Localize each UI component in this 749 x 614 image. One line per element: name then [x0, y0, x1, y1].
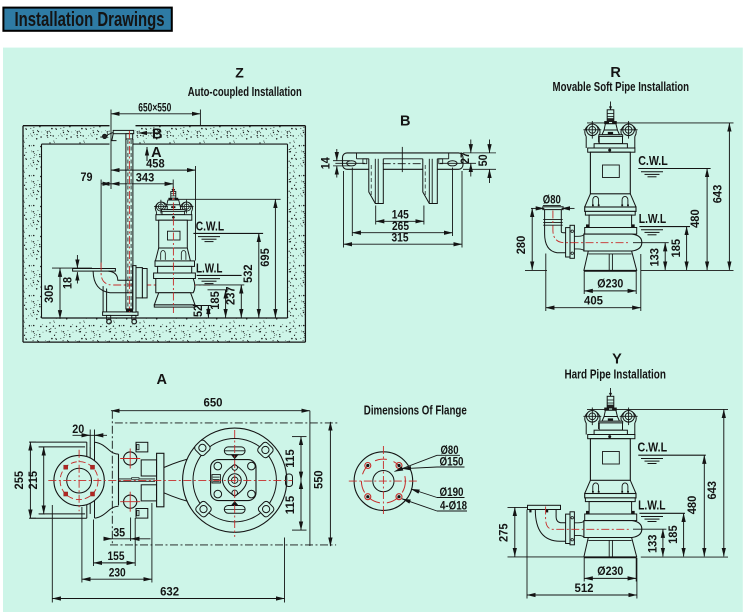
pump R flange plates — [585, 207, 636, 211]
bracket center line — [401, 147, 403, 172]
volute centerline red vertical — [234, 430, 236, 537]
discharge flange disc — [54, 455, 104, 505]
pump Y taper — [585, 480, 591, 493]
pump Z volute — [156, 279, 195, 293]
pump Y cable needle — [610, 388, 612, 396]
pump R shoulder — [588, 148, 635, 152]
svg-text:L.W.L: L.W.L — [196, 260, 223, 275]
svg-text:18: 18 — [61, 277, 75, 289]
svg-text:L.W.L: L.W.L — [638, 498, 665, 513]
svg-text:14: 14 — [319, 157, 333, 169]
pump Y cable plug — [607, 396, 614, 408]
svg-text:155: 155 — [108, 549, 125, 563]
svg-text:B: B — [400, 114, 410, 130]
dimension 650 extension right — [309, 411, 311, 546]
dimension 115 upper — [292, 436, 307, 438]
pit inner wall outline — [42, 143, 110, 145]
dimension 237 — [196, 284, 244, 286]
svg-text:79: 79 — [81, 170, 93, 184]
dimension 650 — [111, 410, 310, 412]
pump Z base plate — [154, 305, 195, 307]
dimension 50 — [463, 168, 496, 170]
svg-text:643: 643 — [711, 185, 725, 204]
dimension 145 — [375, 206, 377, 225]
pump Z shoulder — [156, 215, 192, 221]
elbow centerline red — [101, 263, 210, 286]
pump Y head plate — [599, 421, 623, 423]
pump Y suction bell — [584, 538, 637, 557]
pump R nameplate — [603, 165, 620, 178]
dimension 643 Y — [723, 410, 725, 557]
dimension 35 — [130, 518, 132, 542]
svg-text:Ø150: Ø150 — [440, 455, 464, 469]
dimension 215 — [39, 446, 46, 448]
volute square cover — [211, 460, 256, 501]
pump Y base line — [584, 556, 637, 558]
pump Z cable plug — [171, 192, 176, 199]
dimension 315 — [343, 171, 345, 248]
pump R volute — [584, 234, 642, 251]
pump R head flare — [594, 144, 627, 148]
flange plate side lines — [30, 441, 87, 443]
pit wall speckle bottom — [23, 318, 305, 342]
svg-text:27: 27 — [458, 152, 472, 164]
pump Z lifting eye left — [155, 202, 167, 211]
svg-text:35: 35 — [113, 525, 125, 539]
neck curve top — [164, 457, 197, 468]
dimension 52 — [193, 305, 212, 307]
elbow Y centerline red — [546, 507, 631, 530]
dimension 27 — [463, 152, 496, 154]
pit outline centerline bottom — [110, 544, 336, 546]
dimension 695 — [274, 199, 276, 317]
volute oval slot top — [224, 447, 245, 455]
pit outline centerline left — [111, 411, 113, 546]
pump R mid section — [589, 215, 632, 227]
dimension 305 — [59, 268, 61, 319]
svg-text:Ø80: Ø80 — [543, 192, 561, 206]
pump Y lifting eye left — [585, 411, 600, 423]
coupling bolt top — [124, 452, 137, 465]
pump Z upper flange — [155, 261, 195, 267]
svg-text:230: 230 — [109, 565, 126, 579]
dimension 405 — [545, 254, 547, 312]
discharge plate reference line — [52, 267, 92, 269]
pump Y motor body — [590, 439, 630, 481]
elbow R centerline red — [553, 211, 631, 243]
pump R motor body — [590, 152, 630, 194]
svg-text:L.W.L: L.W.L — [639, 211, 666, 226]
pump Y lifting eye right — [621, 411, 636, 423]
svg-text:255: 255 — [12, 471, 26, 490]
flange bolt circle red — [361, 459, 405, 503]
volute oval slot bottom — [224, 506, 245, 514]
base extension line Y — [641, 556, 728, 558]
pump R lower plate — [585, 228, 637, 235]
svg-text:458: 458 — [146, 156, 165, 170]
dimension 265 — [351, 168, 353, 237]
pump Z motor body — [159, 220, 188, 248]
disc bolt circle red — [60, 462, 98, 500]
svg-text:Hard Pipe Installation: Hard Pipe Installation — [564, 367, 666, 382]
dimension 643 R — [728, 123, 730, 270]
pit wall speckle top-right — [136, 126, 306, 144]
handle reference line R — [587, 122, 734, 124]
dimension 280 — [525, 270, 547, 272]
guide pipe centerline — [128, 131, 130, 312]
dimension 14 — [333, 160, 350, 162]
view arrow B — [139, 132, 153, 134]
dimension 115 lower — [292, 529, 307, 531]
pump Y cap plate — [605, 408, 617, 410]
dimension 343 — [172, 180, 174, 190]
volute outer circle — [183, 428, 287, 532]
pump Z cap plate — [169, 198, 178, 200]
dimension 185 Z — [208, 289, 229, 291]
svg-text:Ø190: Ø190 — [440, 485, 464, 499]
volute right tab — [286, 474, 293, 487]
elbow R vertical pipe — [543, 207, 563, 210]
dimension 255 — [29, 441, 36, 443]
svg-text:532: 532 — [241, 264, 255, 283]
pump top reference line — [177, 198, 281, 200]
pump Z cable needle — [172, 187, 174, 192]
bracket plate — [343, 153, 464, 169]
dimension 185 Y — [683, 513, 685, 556]
svg-text:480: 480 — [685, 496, 699, 515]
elbow outer curve — [93, 271, 134, 293]
coupling flange plates — [133, 266, 136, 313]
dimension 230 — [81, 507, 83, 583]
pump Z cap trapezoid — [167, 200, 180, 205]
svg-text:405: 405 — [584, 294, 603, 308]
svg-text:C.W.L: C.W.L — [638, 153, 668, 168]
coupling slot lines — [119, 478, 156, 480]
dimension 480 Y — [703, 455, 705, 556]
pump R discharge flange plates — [566, 228, 570, 257]
stand legs — [102, 286, 104, 312]
svg-text:B: B — [152, 127, 162, 143]
bracket notch right — [439, 159, 443, 164]
pump Y ribs — [593, 483, 599, 492]
dimension 133 R — [633, 242, 669, 244]
view arrow A — [146, 147, 148, 161]
pump R lifting eye right — [621, 125, 636, 137]
stand base plate — [103, 312, 138, 316]
guide pipe bottom holder — [126, 308, 132, 312]
svg-text:695: 695 — [258, 248, 272, 267]
pump Y discharge flange plates — [566, 514, 570, 543]
bracket S-curve bottom — [95, 506, 119, 518]
volute lens — [223, 465, 247, 497]
pump Z suction bell — [154, 293, 195, 305]
flange bolt holes — [396, 463, 402, 469]
svg-text:632: 632 — [160, 584, 179, 598]
svg-text:280: 280 — [514, 236, 528, 255]
svg-text:52: 52 — [191, 305, 205, 317]
pump R base line — [584, 270, 637, 272]
bracket bolt hole left — [347, 161, 356, 166]
pump R head plate — [599, 135, 623, 137]
dimension 18 — [76, 255, 78, 268]
svg-text:133: 133 — [648, 248, 662, 267]
guide claw left — [369, 159, 384, 204]
svg-text:512: 512 — [575, 581, 594, 595]
svg-text:20: 20 — [72, 422, 84, 436]
pump R lifting eye left — [585, 125, 600, 137]
svg-text:50: 50 — [476, 154, 490, 166]
flange bore circle — [373, 471, 394, 492]
pump R cable needle — [610, 102, 612, 110]
disc centerline red vertical — [78, 450, 80, 512]
svg-text:185: 185 — [666, 525, 680, 544]
elbow inner curve — [108, 271, 133, 280]
pit outer wall outline — [23, 125, 110, 127]
dimension 275 — [508, 506, 528, 508]
svg-text:133: 133 — [645, 534, 659, 553]
neck curve bottom — [164, 493, 197, 504]
pump Y lower plate — [585, 514, 637, 521]
svg-text:Dimensions Of Flange: Dimensions Of Flange — [364, 403, 467, 418]
coupling blocks — [141, 460, 156, 476]
pump Z taper — [155, 248, 158, 261]
coupling mounting plate — [157, 453, 164, 507]
elbow R bend — [545, 234, 566, 253]
dimension 550 — [329, 422, 331, 546]
pump Z lifting eye right — [181, 202, 193, 211]
coupling bracket body — [118, 454, 120, 505]
volute key left — [212, 475, 220, 483]
svg-text:Auto-coupled Installation: Auto-coupled Installation — [188, 84, 302, 99]
dimension 512 — [526, 510, 528, 599]
flange outer circle — [354, 452, 413, 511]
base extension line R — [641, 270, 734, 272]
pit wall speckle right — [288, 144, 306, 318]
guide pipe — [125, 139, 127, 310]
disc bolts red — [64, 465, 68, 469]
flange centerline red vertical — [382, 446, 384, 516]
pump Z head plates — [162, 210, 186, 212]
svg-text:C.W.L: C.W.L — [638, 440, 668, 455]
dimension 650x550 — [111, 113, 200, 115]
pit outline centerline top — [115, 422, 339, 424]
svg-text:4-Ø18: 4-Ø18 — [440, 499, 467, 513]
bracket step lines — [356, 153, 358, 159]
svg-text:185: 185 — [208, 291, 222, 310]
pump R ribs — [593, 196, 599, 206]
elbow R coupling bands — [543, 219, 563, 221]
svg-text:A: A — [157, 372, 168, 388]
coupling upper hook — [136, 442, 148, 452]
pit floor line — [42, 317, 288, 319]
pump Y cap trapezoid — [604, 410, 617, 416]
bracket bolt hole right — [448, 161, 457, 166]
pump Y nameplate — [603, 452, 620, 465]
bracket S-curve top — [95, 442, 119, 454]
svg-text:315: 315 — [392, 231, 409, 245]
pump R suction bell — [584, 251, 637, 270]
guide claw right — [423, 159, 438, 204]
anchor feet — [107, 315, 111, 319]
pump Z nameplate — [168, 231, 181, 240]
svg-text:275: 275 — [496, 523, 510, 542]
pump R taper — [585, 194, 591, 207]
elbow Y bend — [535, 510, 565, 542]
svg-text:Installation Drawings: Installation Drawings — [15, 8, 165, 31]
dimension 20 — [89, 430, 91, 447]
anchor bolt in wall — [103, 134, 107, 138]
elbow Y top flange — [528, 505, 561, 509]
dimension 650x550 extension lines — [110, 110, 112, 190]
volute cover bolts — [214, 462, 222, 470]
flange centerline red horizontal — [349, 480, 418, 482]
discharge flange plate — [73, 269, 116, 272]
pit wall speckle left — [23, 144, 42, 318]
pump Y mid section — [589, 502, 632, 514]
pump Z ribs — [161, 250, 166, 259]
pump Z centerline red — [172, 188, 174, 314]
svg-text:115: 115 — [283, 496, 297, 515]
dimension 480 R — [706, 169, 708, 270]
pump R cable plug — [607, 110, 614, 122]
svg-text:650×550: 650×550 — [138, 100, 171, 114]
A view centerline red horizontal — [48, 479, 292, 481]
svg-text:305: 305 — [42, 284, 56, 303]
svg-text:Ø230: Ø230 — [597, 564, 623, 578]
pump Z lower flange — [154, 273, 196, 279]
svg-text:215: 215 — [26, 471, 40, 490]
svg-text:Z: Z — [235, 65, 244, 81]
svg-text:643: 643 — [705, 481, 719, 500]
bracket notch left — [363, 159, 367, 164]
pump R cap trapezoid — [604, 124, 617, 130]
pump Y shoulder — [588, 435, 635, 439]
dimension 133 Y — [633, 528, 666, 530]
handle reference line Y — [587, 408, 728, 410]
volute center — [228, 474, 241, 487]
svg-text:343: 343 — [136, 171, 155, 185]
pump Z mid section — [158, 266, 192, 273]
svg-text:650: 650 — [204, 395, 223, 409]
dimension 458 — [195, 166, 197, 261]
svg-text:Ø230: Ø230 — [597, 277, 623, 291]
dimension diameter 230 R — [583, 272, 585, 295]
pump R discharge neck — [574, 234, 584, 236]
svg-text:185: 185 — [669, 239, 683, 258]
pump Y discharge neck — [574, 521, 584, 523]
dimension 185 R — [686, 227, 688, 270]
pump Y flange plates — [585, 494, 636, 498]
pump R cap plate — [605, 122, 617, 124]
dimension 532 — [258, 233, 260, 317]
pump Y volute — [584, 521, 642, 538]
coupling bolt bottom — [124, 495, 137, 508]
dimension 155 — [93, 520, 95, 567]
pump Y head flare — [594, 430, 627, 434]
dimension diameter 230 Y — [583, 558, 585, 582]
svg-text:480: 480 — [688, 209, 702, 228]
dimension 632 — [51, 505, 53, 603]
guide rail top bracket — [113, 130, 134, 133]
coupling lower hook — [136, 509, 148, 519]
title bar — [3, 8, 171, 31]
svg-text:Y: Y — [612, 352, 622, 368]
pit wall speckle top-left — [23, 126, 110, 144]
svg-text:Movable Soft Pipe Installation: Movable Soft Pipe Installation — [553, 79, 690, 94]
svg-text:C.W.L: C.W.L — [196, 218, 225, 233]
volute ring circle — [193, 439, 276, 522]
volute lugs — [193, 439, 211, 457]
svg-text:550: 550 — [311, 470, 325, 489]
dimension 79 — [100, 180, 102, 268]
